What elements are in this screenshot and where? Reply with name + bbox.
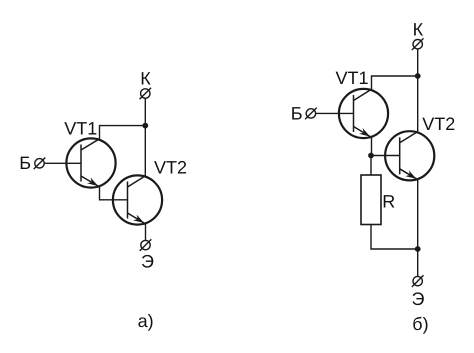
terminal К (right) xyxy=(412,38,424,50)
svg-text:VT1: VT1 xyxy=(336,68,369,88)
wire resistor bottom to bottom node (right) xyxy=(371,225,418,250)
node junction emitter/base/R tie (right middle) xyxy=(368,153,374,159)
wire К terminal down to collector node (right) xyxy=(417,49,419,76)
svg-text:R: R xyxy=(382,191,395,211)
terminal Э (left) xyxy=(140,239,152,251)
wire VT2 emitter down to bottom node (right) xyxy=(417,180,419,249)
svg-text:VT2: VT2 xyxy=(154,157,187,177)
node junction (left, collector tie) xyxy=(142,123,148,129)
terminal Б (right) xyxy=(305,108,317,120)
svg-text:VT1: VT1 xyxy=(64,119,97,139)
terminal К (left) xyxy=(140,88,152,100)
wire Б terminal to VT1 base (right) xyxy=(316,112,354,114)
svg-text:Б: Б xyxy=(291,104,303,124)
wire VT1 emitter to VT2 base xyxy=(100,187,128,200)
wire node down to VT2 collector xyxy=(144,126,146,176)
wire node down to VT2 collector (right) xyxy=(417,76,419,132)
transistor VT1 (left circuit a) xyxy=(66,138,115,187)
wire К terminal down to node xyxy=(144,98,146,125)
wire VT1 emitter down to node (right) xyxy=(371,137,373,155)
svg-text:Э: Э xyxy=(412,289,425,309)
transistor VT2 (right circuit b) xyxy=(385,131,434,180)
terminal Э (right) xyxy=(412,275,424,287)
svg-text:Б: Б xyxy=(19,153,31,173)
node junction emitter/R tie (right bottom) xyxy=(415,246,421,252)
wire VT1 collector to node xyxy=(100,126,146,139)
svg-text:б): б) xyxy=(412,314,428,334)
transistor VT2 (left circuit a) xyxy=(113,175,162,224)
wire node to VT2 base (right) xyxy=(371,155,400,157)
wire VT2 emitter down to Э terminal xyxy=(145,224,147,241)
wire bottom node down to Э terminal (right) xyxy=(417,249,419,276)
svg-text:VT2: VT2 xyxy=(422,114,455,134)
wire Б terminal to VT1 base xyxy=(44,162,81,164)
wire node down to resistor R (right) xyxy=(370,156,372,176)
svg-text:а): а) xyxy=(138,311,154,331)
svg-text:К: К xyxy=(413,19,424,39)
svg-text:К: К xyxy=(140,69,151,89)
transistor VT1 (right circuit b) xyxy=(339,89,388,138)
node junction collector tie (right top) xyxy=(415,73,421,79)
wire VT1 collector to node (right) xyxy=(372,76,418,89)
resistor R xyxy=(361,175,381,225)
terminal Б (left) xyxy=(34,158,46,170)
svg-text:Э: Э xyxy=(141,252,154,272)
